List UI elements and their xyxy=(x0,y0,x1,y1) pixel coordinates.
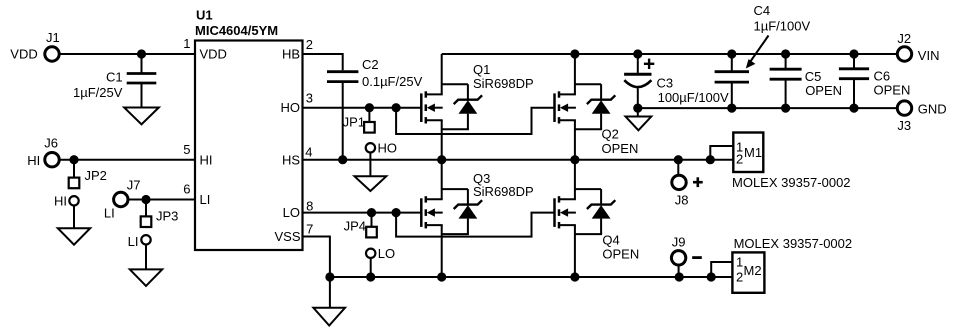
svg-text:HO: HO xyxy=(281,100,301,115)
svg-text:HI: HI xyxy=(200,152,213,167)
svg-text:1µF/25V: 1µF/25V xyxy=(73,85,123,100)
svg-text:J7: J7 xyxy=(127,177,141,192)
svg-text:VSS: VSS xyxy=(274,229,300,244)
svg-text:C1: C1 xyxy=(106,70,123,85)
svg-text:C4: C4 xyxy=(754,3,771,18)
svg-text:J9: J9 xyxy=(672,234,686,249)
svg-text:C2: C2 xyxy=(362,57,379,72)
svg-text:2: 2 xyxy=(306,37,313,52)
svg-text:JP1: JP1 xyxy=(343,114,365,129)
svg-text:HS: HS xyxy=(282,152,300,167)
svg-text:2: 2 xyxy=(736,152,743,167)
svg-text:3: 3 xyxy=(306,91,313,106)
svg-text:OPEN: OPEN xyxy=(602,246,639,261)
svg-text:LI: LI xyxy=(104,206,115,221)
svg-text:2: 2 xyxy=(736,269,743,284)
svg-text:HO: HO xyxy=(378,141,398,156)
svg-text:Q2: Q2 xyxy=(602,127,619,142)
svg-text:GND: GND xyxy=(918,101,947,116)
svg-text:J2: J2 xyxy=(897,31,911,46)
svg-text:LO: LO xyxy=(378,246,395,261)
svg-text:JP4: JP4 xyxy=(344,218,366,233)
svg-text:U1: U1 xyxy=(196,8,213,23)
svg-text:1: 1 xyxy=(183,36,190,51)
svg-text:C6: C6 xyxy=(874,69,891,84)
svg-text:MOLEX 39357-0002: MOLEX 39357-0002 xyxy=(732,175,851,190)
svg-text:M2: M2 xyxy=(744,263,762,278)
svg-text:HI: HI xyxy=(27,153,40,168)
svg-text:SiR698DP: SiR698DP xyxy=(473,76,534,91)
svg-text:J6: J6 xyxy=(44,136,58,151)
svg-text:MIC4604/5YM: MIC4604/5YM xyxy=(195,23,278,38)
svg-text:VIN: VIN xyxy=(918,48,940,63)
svg-text:HI: HI xyxy=(54,194,67,209)
svg-text:1µF/100V: 1µF/100V xyxy=(754,19,811,34)
svg-text:4: 4 xyxy=(305,145,312,160)
svg-text:8: 8 xyxy=(306,198,313,213)
svg-text:7: 7 xyxy=(306,222,313,237)
svg-text:1: 1 xyxy=(736,254,743,269)
svg-text:HB: HB xyxy=(282,46,300,61)
svg-text:100µF/100V: 100µF/100V xyxy=(658,90,729,105)
svg-text:SiR698DP: SiR698DP xyxy=(473,184,534,199)
svg-text:0.1µF/25V: 0.1µF/25V xyxy=(362,74,423,89)
svg-text:OPEN: OPEN xyxy=(602,141,639,156)
svg-text:OPEN: OPEN xyxy=(805,83,842,98)
svg-text:J1: J1 xyxy=(46,30,60,45)
svg-text:VDD: VDD xyxy=(10,47,37,62)
svg-text:LI: LI xyxy=(128,234,139,249)
svg-text:MOLEX 39357-0002: MOLEX 39357-0002 xyxy=(734,236,853,251)
svg-text:VDD: VDD xyxy=(200,46,227,61)
svg-text:6: 6 xyxy=(183,182,190,197)
svg-text:JP2: JP2 xyxy=(85,168,107,183)
svg-text:M1: M1 xyxy=(744,145,762,160)
svg-text:LO: LO xyxy=(283,205,300,220)
svg-text:5: 5 xyxy=(183,142,190,157)
svg-text:C3: C3 xyxy=(657,75,674,90)
svg-text:Q4: Q4 xyxy=(602,232,619,247)
svg-text:J3: J3 xyxy=(897,118,911,133)
svg-text:LI: LI xyxy=(200,192,211,207)
svg-text:OPEN: OPEN xyxy=(874,83,911,98)
svg-text:C5: C5 xyxy=(805,69,822,84)
svg-text:J8: J8 xyxy=(675,193,689,208)
svg-text:JP3: JP3 xyxy=(156,208,178,223)
